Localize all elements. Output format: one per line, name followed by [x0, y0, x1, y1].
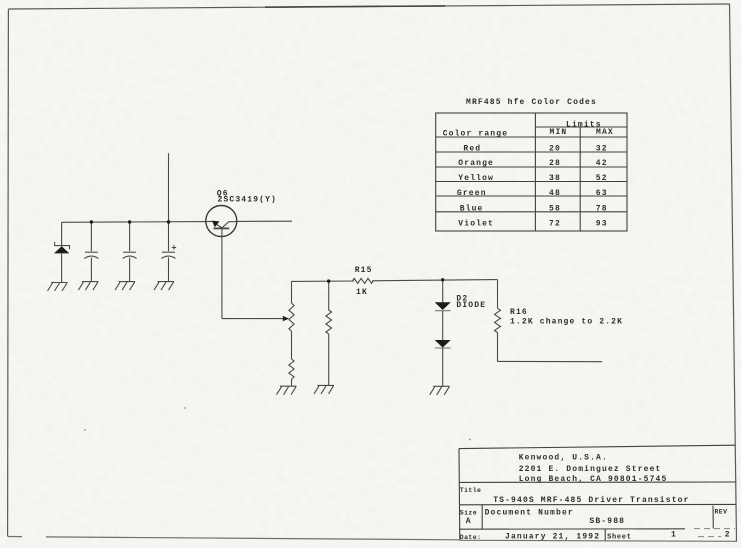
svg-text:20: 20 [549, 145, 561, 154]
svg-text:TS-940S MRF-485 Driver Transis: TS-940S MRF-485 Driver Transistor [493, 496, 689, 505]
svg-text:Sheet: Sheet [607, 533, 632, 541]
svg-text:1: 1 [671, 530, 677, 539]
svg-text:63: 63 [596, 189, 608, 198]
svg-text:Color range: Color range [443, 130, 508, 139]
svg-text:Size: Size [460, 509, 477, 516]
svg-text:93: 93 [596, 220, 608, 229]
svg-text:38: 38 [549, 174, 561, 183]
svg-text:DIODE: DIODE [456, 301, 486, 310]
svg-text:Yellow: Yellow [458, 174, 494, 183]
svg-text:32: 32 [596, 145, 608, 154]
svg-text:1.2K change to 2.2K: 1.2K change to 2.2K [510, 317, 623, 326]
svg-text:Document Number: Document Number [485, 508, 574, 517]
svg-text:2201 E. Dominguez Street: 2201 E. Dominguez Street [519, 465, 662, 474]
svg-text:78: 78 [596, 205, 608, 214]
svg-text:2SC3419(Y): 2SC3419(Y) [218, 196, 278, 205]
svg-text:A: A [466, 517, 472, 526]
svg-text:Green: Green [457, 189, 487, 198]
svg-text:Date:: Date: [460, 534, 482, 541]
svg-text:MIN: MIN [550, 128, 568, 137]
svg-text:Violet: Violet [458, 220, 494, 229]
svg-text:42: 42 [596, 159, 608, 168]
svg-text:Kenwood, U.S.A.: Kenwood, U.S.A. [519, 453, 608, 462]
svg-text:R15: R15 [355, 266, 373, 275]
svg-text:2: 2 [725, 530, 731, 539]
svg-text:52: 52 [596, 174, 608, 183]
svg-text:1K: 1K [356, 288, 368, 297]
svg-text:January 21, 1992: January 21, 1992 [505, 532, 600, 541]
svg-text:72: 72 [549, 220, 561, 229]
svg-text:58: 58 [549, 205, 561, 214]
svg-text:MRF485 hfe Color Codes: MRF485 hfe Color Codes [466, 98, 597, 107]
svg-text:MAX: MAX [596, 128, 614, 137]
svg-text:Red: Red [463, 145, 481, 154]
svg-text:Title: Title [460, 487, 482, 494]
svg-text:Orange: Orange [458, 159, 494, 168]
svg-text:28: 28 [549, 159, 561, 168]
svg-text:SB-988: SB-988 [589, 517, 625, 526]
svg-text:Long Beach, CA 90801-5745: Long Beach, CA 90801-5745 [519, 475, 668, 484]
svg-text:REV: REV [715, 509, 728, 516]
svg-text:48: 48 [549, 189, 561, 198]
svg-text:Blue: Blue [460, 205, 484, 214]
svg-text:R16: R16 [510, 308, 528, 317]
